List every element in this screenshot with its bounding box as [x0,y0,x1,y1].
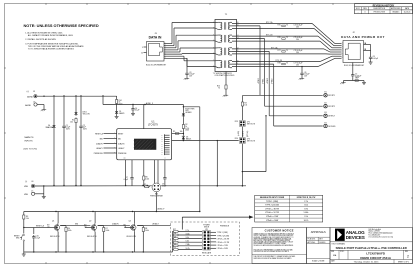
svg-text:(-): (-) [25,181,27,183]
svg-text:GREEN: GREEN [185,112,192,114]
node J3 pin numbers [165,42,166,59]
resistor R20 [173,240,203,243]
main PS inputs label [24,136,38,150]
test point E2 SPORT2 [265,103,335,109]
svg-text:(LTPoE): (LTPoE) [247,130,249,137]
diode D6 [182,135,192,141]
test point E4 DETGND [274,122,337,128]
svg-text:0603: 0603 [185,130,189,132]
resistor R76 row2 [278,37,288,39]
wire AGND to AGND_F [103,96,183,105]
resistor R14 [116,96,123,105]
capacitor C76 row3 [294,50,303,54]
wire AGND_F branch right [183,106,200,211]
svg-text:Q3: Q3 [129,221,131,223]
svg-text:0: 0 [365,12,366,14]
svg-text:7.68k: 7.68k [186,244,190,246]
svg-text:R22: R22 [173,247,176,249]
svg-text:KE1G1-STN: KE1G1-STN [87,236,97,238]
svg-text:100k: 100k [145,230,149,232]
svg-text:R19: R19 [173,236,176,238]
svg-text:10.7k: 10.7k [186,248,190,250]
svg-text:75: 75 [356,78,358,80]
svg-text:AGND: AGND [27,95,33,98]
capacitor C9 [163,160,166,186]
svg-text:DEMO CIRCUIT 2541A: DEMO CIRCUIT 2541A [360,256,391,260]
wire center-tap 3 [267,51,269,115]
capacitor C4 [131,105,139,112]
ground below C6 [299,76,304,80]
svg-text:E4: E4 [324,122,326,124]
svg-text:100k: 100k [145,178,149,180]
capacitor C6 termination [300,66,309,78]
svg-text:9: 9 [142,47,143,49]
svg-text:10k: 10k [26,218,29,220]
resistor R13 PWRGD sense [150,183,164,198]
wire J2 right pins [364,42,371,56]
svg-text:DATA IN: DATA IN [149,36,162,40]
node title row [330,242,413,250]
svg-text:SLM/KS: SLM/KS [319,242,326,244]
svg-text:10-13-15: 10-13-15 [404,12,411,14]
svg-text:ALL CAPACITORS ARE IN MICROFAR: ALL CAPACITORS ARE IN MICROFARADS, 0603. [28,34,74,37]
svg-text:R77: R77 [278,50,281,52]
svg-text:100k: 100k [68,230,72,232]
jumper JP3 [235,127,256,144]
svg-text:PWRMODE: PWRMODE [94,153,104,155]
svg-text:RJ45, NO-XFORMER/KEY: RJ45, NO-XFORMER/KEY [344,65,365,67]
switch SW1 reset [14,234,25,252]
svg-text:PWRMODE: PWRMODE [118,153,127,155]
svg-text:2. INSTALL SHORTS AS SHOWN.: 2. INSTALL SHORTS AS SHOWN. [25,38,56,41]
resistor R18 [173,233,203,236]
resistor R2 [182,117,189,134]
resistor R8 [137,226,149,253]
ground (chassis) below C5 [340,78,366,85]
svg-text:-PSE1: -PSE1 [263,79,265,84]
svg-text:75: 75 [286,25,288,27]
ground below D1 [115,115,119,119]
svg-text:AGND_F: AGND_F [146,102,153,105]
terminal J7 VEE [24,191,35,196]
resistor R21 [173,244,203,247]
wire jumper column to VEE rail [242,144,244,187]
wire DUALPD net [98,223,130,226]
svg-text:2.7k: 2.7k [186,230,189,232]
svg-text:R9: R9 [173,131,175,133]
svg-text:PCB DES.: PCB DES. [308,239,316,241]
svg-text:MKT: MKT [319,239,323,241]
svg-text:75: 75 [218,87,220,89]
wire U1 LED drive [172,131,184,135]
svg-text:5.6k: 5.6k [186,241,189,243]
svg-text:RTX_1B: RTX_1B [266,35,273,37]
svg-text:Thursday, October 15, 2015: Thursday, October 15, 2015 [354,260,380,263]
capacitor C10 [32,235,40,252]
svg-text:7.0k: 7.0k [304,216,308,218]
approvals box [307,228,331,264]
wire resistor tie [172,231,174,252]
op-amp U1 LTC4279 [117,120,172,160]
svg-text:R20: R20 [173,240,176,242]
wire bottom return rail [24,251,173,252]
svg-text:Q2: Q2 [89,221,91,223]
svg-text:LTPoE++ 90W: LTPoE++ 90W [217,248,228,250]
wire MID net [61,224,91,226]
svg-text:LTPoE++ 52.7W: LTPoE++ 52.7W [265,212,279,214]
transistor Q2 [84,212,97,253]
resistor R17 [173,229,203,232]
transformer T1 [213,14,237,77]
ground below rail [22,252,26,256]
svg-text:0.01µF: 0.01µF [373,58,378,60]
svg-text:AGND: AGND [25,104,31,107]
svg-text:SINGLE PORT PoE/PoE+/LTPoE++ P: SINGLE PORT PoE/PoE+/LTPoE++ PSE CONTROL… [336,246,407,250]
resistor R3 reset pullup [23,212,29,221]
wire PWRGD to VEE node [156,186,246,212]
terminal J5 AGND [27,91,38,98]
svg-text:RESET_A: RESET_A [36,224,45,227]
svg-text:10k: 10k [244,104,247,106]
wire J7 to ground [35,186,46,199]
resistor R4 [60,226,72,253]
svg-text:Fax: (408)434-0507: Fax: (408)434-0507 [369,235,381,237]
resistor R1 [70,118,77,186]
test point E1 SPORT1 [243,92,335,98]
ground (chassis) below R10 [223,93,228,97]
svg-text:TYPE 1 (13W): TYPE 1 (13W) [217,232,228,234]
svg-text:LTPoE++ 70W: LTPoE++ 70W [266,216,278,218]
resistor R5 [144,184,150,188]
resistor R7 [98,226,110,253]
svg-text:RTX_2A: RTX_2A [271,46,278,49]
capacitor C9 label [162,184,166,188]
wire U1 OUT to jumpers [172,140,239,187]
revision history table [355,4,413,14]
wire LEGACY net [137,223,170,226]
svg-text:0.1µF: 0.1µF [135,110,139,112]
svg-text:BAS21: BAS21 [119,112,124,115]
wire U1 top pin to AGND_F [143,105,145,129]
capacitor C5 shield [351,63,361,80]
svg-text:LEGACY: LEGACY [152,223,160,226]
svg-text:PRODUCTION: PRODUCTION [374,12,386,14]
svg-text:RJ45, NO-XFORMER/KEY: RJ45, NO-XFORMER/KEY [146,65,167,67]
node rotated net labels [238,130,249,137]
wire J3 pin fan to T1 [164,23,215,67]
wire center-tap 4 [272,64,274,126]
diode D5 port pwr LED green [182,105,195,118]
svg-text:AGND_F: AGND_F [158,208,165,211]
wire U1 bottom pin 1 [125,160,126,186]
svg-text:10k: 10k [70,121,73,123]
svg-text:E2: E2 [324,103,326,105]
svg-text:2.7k: 2.7k [304,201,308,203]
node +PSE center-tap drops [258,26,260,95]
node T1 pin numbers [213,22,239,68]
svg-text:E3: E3 [324,112,326,114]
svg-text:RESET: RESET [118,133,123,135]
svg-text:TYPE 2 (25.5W): TYPE 2 (25.5W) [265,205,279,207]
diode D1 [115,105,125,115]
resistor R22 [173,247,203,250]
svg-text:MAXIMUM PD INPUT POWER: MAXIMUM PD INPUT POWER [260,196,285,199]
svg-text:0.1µF: 0.1µF [124,179,128,181]
wire AGND rail [37,95,117,97]
wire reset node [23,220,45,234]
ground (chassis) below C3 [184,76,189,80]
resistor R6 [143,160,150,186]
svg-text:3.01k: 3.01k [186,233,190,235]
node size/ic/rev row [330,250,413,259]
capacitor C77 row4 [294,63,303,67]
capacitor C75 row2 [294,37,303,41]
node pin labels U1 left [94,132,117,155]
svg-text:GN-A615: GN-A615 [392,11,399,14]
svg-text:R78: R78 [278,63,281,65]
svg-text:LTPoE++ 70W: LTPoE++ 70W [217,245,228,247]
svg-text:E1: E1 [324,92,326,94]
svg-text:SIZE: SIZE [331,251,334,253]
svg-text:KE1G1-STN: KE1G1-STN [50,236,60,238]
resistor R78 row4 [278,63,288,65]
svg-text:APPROVED: APPROVED [391,7,401,10]
svg-text:MAIN PS: MAIN PS [25,136,35,139]
svg-text:3.9k: 3.9k [304,208,308,210]
resistor R10 shield [217,72,227,94]
svg-text:R17: R17 [173,229,176,231]
title block [330,228,413,264]
transistor Q1 [45,212,60,253]
svg-text:TYPE 2 (25.5W): TYPE 2 (25.5W) [217,235,230,237]
svg-text:R21: R21 [173,244,176,246]
jumper JP2 [235,107,256,126]
terminal J4 VEE [24,181,35,188]
svg-text:+PSE1: +PSE1 [258,78,260,84]
svg-text:LTPoE++ 90W: LTPoE++ 90W [266,220,278,222]
capacitor C74 row1 [294,25,303,29]
svg-text:R18: R18 [173,233,176,235]
svg-text:3.0k: 3.0k [304,205,308,207]
wire pair row 4 [232,60,320,67]
node ADI logo [335,229,345,241]
svg-text:R76: R76 [278,37,281,39]
connector J3 DATA IN [141,33,167,67]
svg-text:PWRGD SENSE: PWRGD SENSE [150,196,164,198]
svg-text:SCALE = NONE: SCALE = NONE [312,259,325,262]
svg-text:NOTE: UNLESS OTHERWISE SPECIFI: NOTE: UNLESS OTHERWISE SPECIFIED [24,23,99,28]
svg-text:R23: R23 [235,121,238,123]
svg-text:0.1µF: 0.1µF [36,237,40,239]
node power mode select dashed box [171,222,240,255]
svg-text:DATA AND POWER OUT: DATA AND POWER OUT [341,35,385,39]
svg-text:DETECT: DETECT [328,116,335,118]
node RFB table [255,195,323,222]
svg-text:CUSTOMER NOTICE: CUSTOMER NOTICE [265,229,294,233]
svg-text:EFFECTIVE R_FB, PW: EFFECTIVE R_FB, PW [297,197,316,199]
ground below C4 [131,112,135,116]
node PWRMODE labels [210,226,229,251]
svg-text:10: 10 [141,52,143,54]
svg-text:SW1: SW1 [16,238,20,240]
svg-text:10k: 10k [180,131,183,133]
svg-text:KE1G1-STN: KE1G1-STN [127,236,137,238]
svg-text:RTX_1A: RTX_1A [266,21,273,24]
svg-text:KEYOUTS: KEYOUTS [247,123,256,125]
connector J2 DATA AND POWER OUT [341,32,385,67]
svg-text:LTPoE++ 38.7W: LTPoE++ 38.7W [217,239,230,241]
svg-text:R75: R75 [278,25,281,27]
svg-text:100k: 100k [106,230,110,232]
node ADI address [369,228,394,239]
svg-text:DUALPD: DUALPD [112,223,120,226]
diode D4 TVS [46,96,56,186]
svg-text:5.66k: 5.66k [304,212,309,214]
svg-text:RESET_A: RESET_A [95,132,104,135]
node ADI wordmark [346,230,365,240]
svg-text:75: 75 [286,50,288,52]
svg-text:KEYOUTS: KEYOUTS [247,141,256,143]
wire pair row 2 [232,35,320,42]
wire VEE rail [35,185,152,187]
transistor Q3 [123,212,136,253]
svg-text:IC NO.: IC NO. [340,251,345,253]
wire tap return [242,115,266,172]
svg-text:(+): (+) [27,91,30,93]
svg-text:Q1: Q1 [52,221,54,223]
svg-text:DETGND: DETGND [328,126,336,128]
svg-text:LEGACY: LEGACY [96,147,104,150]
svg-text:LTPoE++ 52.7W: LTPoE++ 52.7W [217,242,230,244]
test point E3 DETECT [269,112,335,118]
svg-text:YELLOW: YELLOW [83,113,90,115]
capacitor C7 [124,160,134,186]
resistor R75 row1 [278,25,288,27]
svg-text:SPORT2: SPORT2 [328,106,335,108]
LED1 yellow [74,96,90,116]
resistor R3A inline [241,95,247,107]
svg-text:INPUTS: INPUTS [25,141,34,143]
capacitor C1 [62,96,70,186]
svg-text:2: 2 [407,254,409,258]
svg-text:LTPoE++ 38.7W: LTPoE++ 38.7W [265,208,279,210]
svg-text:RTX_2B: RTX_2B [276,60,283,62]
svg-text:SHEET 1 OF 1: SHEET 1 OF 1 [398,261,409,263]
wire U1 bottom pins [154,160,158,184]
terminal J6 AGND [25,102,37,107]
svg-text:APP ENG.: APP ENG. [308,241,316,244]
svg-text:PWRMODE: PWRMODE [220,226,230,228]
wire center-tap 2 [263,39,265,107]
svg-text:BAS21: BAS21 [186,137,191,140]
svg-text:TO T1 WHICH HAS A HIGHER CURRE: TO T1 WHICH HAS A HIGHER CURRENT RATING [28,47,74,50]
capacitor C8 [369,56,378,61]
resistor R77 row3 [278,50,288,52]
svg-text:(50V TO 57V): (50V TO 57V) [24,148,38,150]
svg-text:DEVICES: DEVICES [346,235,365,240]
capacitor C2 [79,96,87,186]
wire J6 to chassis ground [37,105,46,112]
wire pair row 1 [232,21,314,29]
svg-text:VEE: VEE [24,186,29,188]
svg-text:SMAJ58A: SMAJ58A [46,126,54,129]
customer notice box [252,228,307,264]
svg-text:APPROVALS: APPROVALS [311,231,326,234]
svg-text:COILCRAFT ETH1-230LD: COILCRAFT ETH1-230LD [215,74,236,77]
svg-text:SPARE: SPARE [242,130,245,136]
svg-text:10.7k: 10.7k [304,220,309,222]
jumper JP1 power mode [202,225,212,255]
notes text block [24,23,99,50]
wire fan into J2 [312,23,342,66]
svg-text:3.9k: 3.9k [186,237,189,239]
svg-text:+PSE2: +PSE2 [267,78,269,84]
svg-text:REGULATE: REGULATE [202,252,212,255]
node date/sheet row [330,259,413,263]
svg-text:R24: R24 [235,138,238,140]
node J2 pin numbers [342,42,366,59]
svg-text:SPORT1: SPORT1 [328,95,335,97]
svg-text:DESCRIPTION: DESCRIPTION [374,8,386,10]
svg-text:VEE: VEE [24,194,29,196]
svg-text:-PSE2: -PSE2 [272,79,274,84]
svg-text:LTC4279: LTC4279 [148,124,158,127]
svg-text:75: 75 [286,63,288,65]
wire AGND_F bottom rail [24,208,201,213]
svg-text:TYPE 1 (13W): TYPE 1 (13W) [266,201,279,203]
resistor R19 [173,236,203,239]
svg-text:LTC4279IUFD: LTC4279IUFD [366,251,385,255]
ground below C8 [369,60,373,64]
svg-text:DUALPD: DUALPD [96,142,104,145]
svg-text:75: 75 [286,37,288,39]
wire arrow to table [182,215,253,229]
wire pair row 3 [232,46,326,54]
capacitor C3 [185,58,194,77]
svg-text:(+48V): (+48V) [238,130,240,136]
